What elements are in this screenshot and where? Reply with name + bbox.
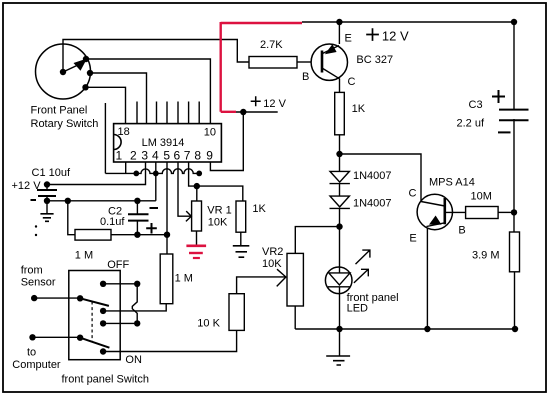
capacitor C2 0.1uf bbox=[128, 208, 158, 234]
svg-text:1N4007: 1N4007 bbox=[353, 170, 392, 182]
wire D1 to D2 bbox=[339, 184, 341, 197]
wire pin6 to VR1 wiper bbox=[178, 162, 191, 216]
wire node to Q2 collector bbox=[340, 154, 422, 202]
wire VR2 bottom to ground bus bbox=[294, 306, 296, 329]
svg-text:C3: C3 bbox=[469, 99, 483, 111]
wire rotary mid contact to IC pin 16 bbox=[90, 73, 147, 124]
wire 2.7K to Q1 base bbox=[297, 61, 312, 63]
svg-text:1K: 1K bbox=[252, 203, 266, 215]
svg-text:12 V: 12 V bbox=[263, 98, 286, 110]
wire right rail C3 to 3.9M bbox=[513, 119, 515, 232]
wire +12V mid stub bbox=[236, 111, 278, 113]
node C1 bottom junction bbox=[44, 198, 50, 204]
svg-text:10K: 10K bbox=[262, 258, 282, 270]
svg-text:C1 10uf: C1 10uf bbox=[32, 167, 71, 179]
wire 3.9M bottom to bus bbox=[514, 272, 516, 329]
decor dots bbox=[35, 225, 37, 227]
svg-text:2.7K: 2.7K bbox=[260, 39, 283, 51]
svg-text:3.9 M: 3.9 M bbox=[472, 250, 500, 262]
svg-text:LM 3914: LM 3914 bbox=[142, 137, 185, 149]
wire pin4 down to C2 net bbox=[155, 162, 157, 201]
svg-text:to: to bbox=[27, 347, 36, 359]
svg-text:C: C bbox=[409, 188, 417, 200]
wire C1 to pin4 net bbox=[47, 200, 156, 202]
svg-text:VR2: VR2 bbox=[262, 246, 283, 258]
node to Computer terminal bbox=[29, 334, 35, 340]
wire pin7 to VR1 top and 1K bbox=[189, 162, 243, 201]
wire ground bus bbox=[295, 328, 515, 330]
diode D1 1N4007 bbox=[330, 171, 350, 183]
wire C1 top stub bbox=[46, 185, 48, 190]
node from Sensor terminal bbox=[31, 295, 37, 301]
wire squiggle net pins 2-4-8 bbox=[105, 169, 199, 174]
wire 1M right to sensor node bbox=[111, 234, 167, 236]
wire S-curve B to F bbox=[132, 284, 137, 323]
wire C1 bottom to ground bbox=[46, 196, 48, 214]
wire LED column top bbox=[339, 227, 341, 273]
switch front panel DPDT bbox=[69, 271, 120, 360]
svg-text:E: E bbox=[409, 233, 416, 245]
svg-text:MPS A14: MPS A14 bbox=[429, 177, 475, 189]
resistor 1K collector Q1 bbox=[335, 92, 345, 134]
wire switch D to 1M bottom bbox=[103, 304, 166, 311]
node sensor net dot bbox=[164, 232, 170, 238]
svg-text:Rotary Switch: Rotary Switch bbox=[31, 118, 99, 130]
svg-text:Front Panel: Front Panel bbox=[31, 105, 88, 117]
wire 1M left leg bbox=[68, 201, 75, 235]
svg-text:Computer: Computer bbox=[12, 359, 61, 371]
node +12V mid dot bbox=[240, 109, 246, 115]
transistor Q1 BC 327 bbox=[311, 44, 347, 80]
node 10M right rail junction bbox=[511, 209, 517, 215]
wire C2 bottom stub bbox=[136, 221, 138, 235]
power +12V mid label bbox=[251, 96, 261, 106]
node Q1 emitter rail junction bbox=[336, 19, 342, 25]
svg-text:LED: LED bbox=[347, 303, 368, 315]
wire D2 to LED node bbox=[339, 208, 341, 226]
node diode chain bottom junction bbox=[336, 223, 342, 229]
node Q2 emitter bus junction bbox=[424, 326, 430, 332]
node 1M left junction bbox=[65, 198, 71, 204]
svg-text:18: 18 bbox=[118, 126, 130, 138]
transistor Q2 MPS A14 bbox=[417, 194, 452, 229]
ground red VR1 bbox=[186, 246, 206, 258]
rotary switch SW1 bbox=[36, 44, 91, 99]
svg-text:2: 2 bbox=[130, 149, 137, 163]
wire rotary center up and right to 2.7K bbox=[63, 40, 249, 73]
red wire from rotary net to +12V bbox=[221, 22, 302, 112]
node LED bus junction bbox=[336, 326, 342, 332]
svg-text:OFF: OFF bbox=[107, 259, 129, 271]
wire LED node left to VR2 top bbox=[295, 227, 339, 254]
svg-text:1 M: 1 M bbox=[75, 250, 93, 262]
svg-text:C: C bbox=[348, 76, 356, 88]
wire Q1 collector to 1K bbox=[339, 79, 341, 93]
wire Q2 emitter down to bus bbox=[426, 229, 428, 330]
svg-text:2.2 uf: 2.2 uf bbox=[457, 118, 485, 130]
wire +12V top rail bbox=[302, 21, 514, 23]
resistor 1M vertical bbox=[160, 254, 173, 304]
power +12V top label bbox=[366, 28, 379, 41]
wire rotary bottom contact to IC pin 18 bbox=[86, 87, 126, 123]
wire node to D1 bbox=[339, 154, 341, 171]
wire switch H to 10K bottom bbox=[103, 330, 237, 351]
svg-text:1K: 1K bbox=[352, 103, 366, 115]
svg-text:9: 9 bbox=[206, 149, 213, 163]
svg-text:10: 10 bbox=[204, 127, 216, 139]
resistor 2.7K bbox=[249, 57, 297, 69]
svg-text:5: 5 bbox=[163, 149, 170, 163]
svg-text:+12 V: +12 V bbox=[12, 180, 42, 192]
ground C1 bbox=[40, 214, 53, 222]
node C2 top junction bbox=[134, 198, 140, 204]
svg-text:10K: 10K bbox=[208, 217, 228, 229]
wire right rail top bbox=[513, 22, 515, 109]
wire pin1 stub bbox=[125, 162, 127, 173]
svg-text:from: from bbox=[21, 265, 43, 277]
svg-text:B: B bbox=[302, 71, 309, 83]
svg-text:12 V: 12 V bbox=[382, 28, 409, 43]
node VR1 top junction bbox=[194, 183, 200, 189]
resistor 1K divider bbox=[236, 201, 246, 232]
switch arm pole2 bbox=[80, 338, 109, 348]
IC top short pins 17,15,14,13,12,11 bbox=[137, 102, 199, 124]
resistor 10K vertical bbox=[229, 294, 244, 331]
wire LED column bottom bbox=[339, 287, 341, 329]
svg-text:Sensor: Sensor bbox=[21, 276, 56, 288]
wire switch contact A to B bbox=[103, 283, 137, 285]
svg-text:ON: ON bbox=[125, 354, 142, 366]
svg-text:VR 1: VR 1 bbox=[207, 205, 231, 217]
node C2 bottom junction bbox=[134, 232, 140, 238]
resistor 3.9M bbox=[510, 232, 520, 272]
resistor 1M horizontal bbox=[75, 230, 111, 241]
wire rotary top contact to IC pin 10 bbox=[86, 59, 210, 124]
wire 10K top to VR2 wiper bbox=[237, 277, 286, 294]
switch link dashed bbox=[91, 302, 93, 342]
svg-text:4: 4 bbox=[152, 149, 159, 163]
svg-text:10M: 10M bbox=[471, 191, 492, 203]
svg-text:1N4007: 1N4007 bbox=[353, 198, 392, 210]
ground LED bbox=[326, 356, 350, 365]
wire pin9 to +12V node bbox=[210, 112, 243, 171]
potentiometer VR1 10K bbox=[192, 201, 202, 231]
svg-text:front panel Switch: front panel Switch bbox=[62, 374, 149, 386]
svg-text:3: 3 bbox=[141, 149, 148, 163]
potentiometer VR2 10K bbox=[287, 253, 303, 306]
capacitor C1 10uf bbox=[31, 190, 58, 200]
wire 1K divider bottom stub bbox=[240, 232, 242, 246]
svg-text:7: 7 bbox=[184, 149, 191, 163]
svg-text:8: 8 bbox=[194, 149, 201, 163]
svg-text:B: B bbox=[458, 225, 465, 237]
wire VR1 bottom stub bbox=[196, 231, 198, 245]
LED front panel bbox=[325, 249, 369, 293]
node squiggle dots pins 2,4,8 bbox=[133, 171, 139, 177]
wire to computer to switch bbox=[33, 336, 81, 338]
capacitor C3 2.2uf bbox=[492, 90, 529, 132]
svg-text:6: 6 bbox=[174, 149, 181, 163]
wire VR1 top stub bbox=[196, 186, 198, 201]
wire from sensor to switch bbox=[34, 297, 80, 299]
wire 1K to node bbox=[339, 135, 341, 154]
node collector junction bbox=[336, 151, 342, 157]
node right rail bus junction bbox=[512, 326, 518, 332]
wire Q2 base to 10M bbox=[445, 211, 466, 213]
svg-text:1: 1 bbox=[116, 149, 123, 163]
ground 1K divider bbox=[233, 246, 250, 257]
wire C2 top stub bbox=[136, 201, 138, 214]
svg-text:BC 327: BC 327 bbox=[356, 54, 393, 66]
wire switch E to F bbox=[103, 322, 137, 324]
svg-text:0.1uf: 0.1uf bbox=[100, 216, 125, 228]
switch arm pole1 bbox=[80, 298, 109, 306]
diode D2 1N4007 bbox=[330, 196, 350, 208]
switch contacts bbox=[100, 281, 106, 287]
resistor 10M bbox=[466, 207, 499, 219]
node C1 +12V junction bbox=[44, 181, 50, 187]
node right rail top junction bbox=[511, 19, 517, 25]
svg-text:1 M: 1 M bbox=[175, 273, 193, 285]
wire stub at x105 bbox=[104, 103, 106, 173]
svg-text:E: E bbox=[345, 33, 352, 45]
wire pin5 down to sensor net bbox=[166, 162, 168, 254]
wire LED ground stub bbox=[339, 329, 341, 356]
wire 10M to right rail bbox=[498, 211, 514, 213]
svg-text:10 K: 10 K bbox=[197, 318, 220, 330]
IC U1 LM 3914 bbox=[114, 124, 222, 162]
wire Q1 emitter to rail bbox=[338, 22, 340, 44]
wire pin3 to +12V left bbox=[47, 162, 146, 185]
